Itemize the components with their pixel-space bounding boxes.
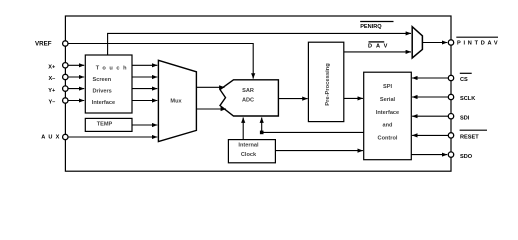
svg-text:SCLK: SCLK xyxy=(460,96,475,102)
block: SPI Serial Interface and Control xyxy=(364,72,412,160)
svg-text:TEMP: TEMP xyxy=(97,122,113,128)
wire VREF to SAR ADC top xyxy=(68,44,253,79)
svg-text:SDI: SDI xyxy=(460,115,470,121)
wire Internal Clock to ADC bottom xyxy=(242,118,244,140)
wire SPI control to ADC bottom xyxy=(260,118,364,135)
wire Touch to Mux ch3 xyxy=(132,88,157,90)
wire Mux to ADC (lower) xyxy=(196,108,226,110)
svg-text:DAV: DAV xyxy=(368,44,391,50)
wire Y- to Touch block xyxy=(68,100,84,102)
svg-text:RESET: RESET xyxy=(460,135,479,141)
svg-text:and: and xyxy=(383,123,394,129)
svg-text:CS: CS xyxy=(460,77,468,83)
pin RESET (overlined) xyxy=(448,130,487,140)
pin PINTDAV (overlined) xyxy=(448,37,500,47)
block U1: Touch Screen Drivers Interface xyxy=(85,55,132,113)
wire AUX to Mux xyxy=(68,136,157,138)
svg-text:SAR: SAR xyxy=(242,88,254,94)
wire SPI to SDO pin xyxy=(411,154,447,156)
pin Y- xyxy=(48,98,68,106)
svg-text:ADC: ADC xyxy=(242,98,254,104)
wire DAV: Pre-Processing to output mux, net label DAV (overlined) xyxy=(344,42,411,52)
block: Mux (trapezoid) xyxy=(158,60,196,141)
svg-text:Interface: Interface xyxy=(376,110,399,116)
svg-text:AUX: AUX xyxy=(41,135,62,141)
pin CS (overlined) xyxy=(448,73,471,83)
pin X- xyxy=(48,74,68,82)
svg-text:X–: X– xyxy=(48,76,55,82)
svg-text:Clock: Clock xyxy=(241,152,257,158)
svg-text:PENIRQ: PENIRQ xyxy=(360,24,382,30)
svg-text:Pre-Processing: Pre-Processing xyxy=(325,63,331,106)
wire Touch to Mux ch4 xyxy=(132,100,157,102)
wire Y+ to Touch block xyxy=(68,88,84,90)
block: TEMP sensor xyxy=(85,118,132,131)
svg-text:X+: X+ xyxy=(48,64,56,70)
wire Touch to Mux ch1 xyxy=(132,64,157,66)
wire output mux to PINTDAV pin xyxy=(422,42,447,44)
pin Y+ xyxy=(48,86,68,94)
svg-text:Control: Control xyxy=(378,136,398,142)
svg-text:Y+: Y+ xyxy=(48,88,56,94)
svg-text:Screen: Screen xyxy=(93,77,112,83)
svg-text:PINTDAV: PINTDAV xyxy=(457,41,500,47)
svg-text:Drivers: Drivers xyxy=(93,89,112,95)
svg-text:SPI: SPI xyxy=(383,84,392,90)
pin VREF xyxy=(35,40,68,47)
wire TEMP to Mux xyxy=(132,124,157,126)
svg-text:Internal: Internal xyxy=(238,142,259,148)
wire Pre-Processing to SPI xyxy=(344,97,363,99)
svg-text:Mux: Mux xyxy=(170,99,182,105)
pin SCLK xyxy=(448,94,475,102)
outer boundary box xyxy=(65,16,451,171)
svg-text:Serial: Serial xyxy=(380,97,396,103)
block: output mux (PENIRQ/DAV trapezoid) xyxy=(412,27,422,58)
svg-text:Y–: Y– xyxy=(48,100,55,106)
wire Mux to ADC (upper) xyxy=(196,86,224,88)
wire SCLK pin to SPI xyxy=(412,96,448,98)
wire ADC to Pre-Processing xyxy=(278,98,307,100)
pin AUX xyxy=(41,134,68,140)
wire SDI pin to SPI xyxy=(412,115,448,117)
block: SAR ADC (chevron-notched symbol) xyxy=(220,80,278,116)
svg-text:Touch: Touch xyxy=(96,66,130,72)
block: Pre-Processing xyxy=(308,42,343,121)
wire X+ to Touch block xyxy=(68,64,84,66)
wire PENIRQ: Touch block top to output mux, net label PENIRQ (overlined) xyxy=(108,22,411,56)
wire CS pin to SPI xyxy=(412,77,448,79)
svg-text:Interface: Interface xyxy=(92,100,115,106)
block: Internal Clock xyxy=(228,140,275,163)
pin X+ xyxy=(48,63,68,71)
svg-text:SDO: SDO xyxy=(460,154,473,160)
wire Touch to Mux ch2 xyxy=(132,76,157,78)
wire RESET pin to SPI xyxy=(412,134,448,136)
svg-text:VREF: VREF xyxy=(35,40,52,47)
pin SDO xyxy=(448,152,472,160)
pin SDI xyxy=(448,114,469,122)
wire X- to Touch block xyxy=(68,76,84,78)
wire Internal Clock to SPI xyxy=(275,150,363,152)
